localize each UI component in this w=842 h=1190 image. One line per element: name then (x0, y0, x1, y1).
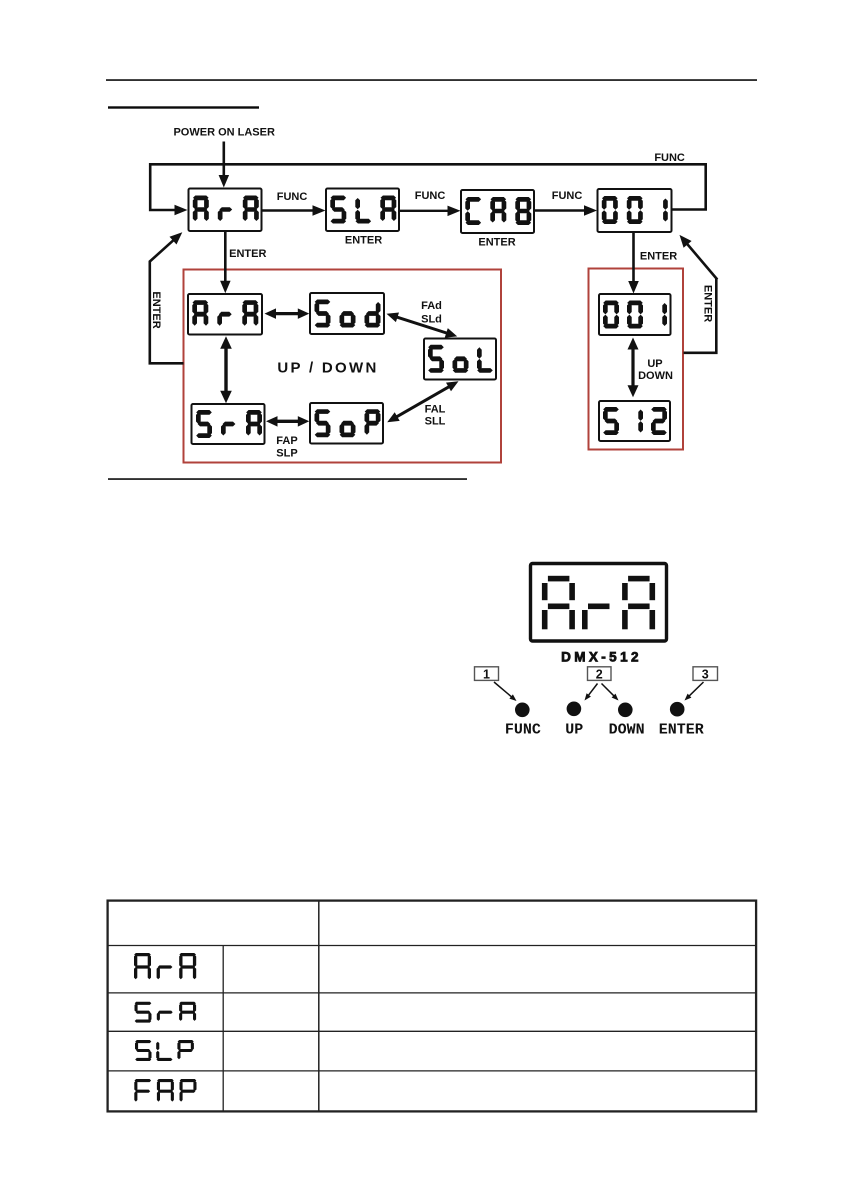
svg-text:2: 2 (596, 667, 603, 681)
svg-text:ENTER: ENTER (150, 291, 162, 328)
svg-text:DOWN: DOWN (638, 370, 673, 382)
svg-text:1: 1 (483, 667, 490, 681)
svg-text:FUNC: FUNC (552, 190, 583, 202)
svg-text:FAd: FAd (421, 300, 442, 312)
svg-text:SLd: SLd (421, 314, 442, 326)
svg-text:FUNC: FUNC (505, 722, 541, 739)
svg-text:UP: UP (647, 358, 662, 370)
svg-text:ENTER: ENTER (659, 722, 704, 739)
svg-text:ENTER: ENTER (345, 235, 382, 247)
svg-text:ENTER: ENTER (640, 251, 677, 263)
svg-text:UP: UP (565, 722, 583, 739)
svg-text:3: 3 (702, 667, 709, 681)
svg-text:FAL: FAL (425, 403, 446, 415)
svg-text:ENTER: ENTER (701, 285, 713, 322)
svg-text:SLP: SLP (276, 448, 297, 460)
svg-text:FUNC: FUNC (277, 191, 308, 203)
svg-text:DMX-512: DMX-512 (561, 650, 642, 665)
svg-text:SLL: SLL (425, 416, 446, 428)
svg-text:POWER ON LASER: POWER ON LASER (173, 127, 275, 139)
svg-text:DOWN: DOWN (609, 722, 645, 739)
svg-text:FAP: FAP (276, 435, 297, 447)
svg-text:FUNC: FUNC (654, 152, 685, 164)
svg-text:FUNC: FUNC (415, 190, 446, 202)
svg-text:ENTER: ENTER (478, 237, 515, 249)
svg-text:ENTER: ENTER (229, 248, 266, 260)
svg-text:UP / DOWN: UP / DOWN (277, 360, 378, 377)
